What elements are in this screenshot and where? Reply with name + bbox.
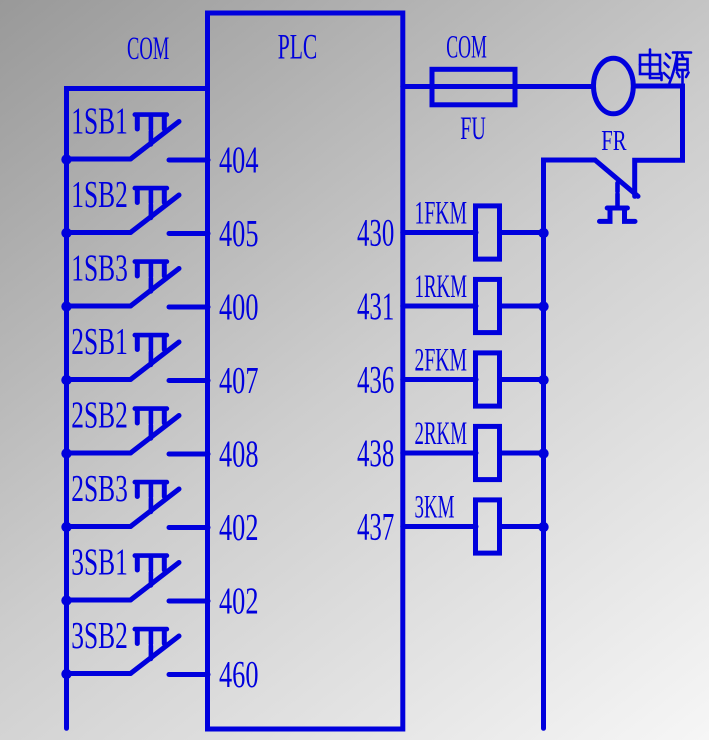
wire left contact row 2 [67, 230, 131, 235]
PLC output pin 438 [357, 432, 394, 475]
wire right contact row 6 [169, 525, 208, 530]
label 1SB1 [71, 101, 128, 143]
wire right contact row 1 [169, 158, 208, 163]
junction dot output row 2 [538, 301, 548, 311]
PLC output pin 430 [357, 212, 394, 255]
svg-text:1SB3: 1SB3 [71, 248, 128, 290]
svg-text:2FKM: 2FKM [415, 343, 468, 379]
svg-text:1SB2: 1SB2 [71, 174, 128, 216]
label 3SB2 [71, 615, 128, 657]
wire coil 3KM to bus [500, 524, 544, 529]
svg-text:402: 402 [219, 580, 259, 622]
PLC input pin 402 [219, 580, 259, 622]
wire PLC to coil 2RKM [403, 451, 476, 456]
svg-text:438: 438 [357, 432, 394, 475]
svg-text:3KM: 3KM [415, 490, 455, 526]
wire PLC to coil 2FKM [403, 377, 476, 382]
svg-text:2SB3: 2SB3 [71, 468, 128, 510]
PLC input pin 402 [219, 507, 259, 549]
pushbutton switch 1SB2 [131, 188, 180, 232]
PLC input pin 408 [219, 433, 259, 475]
wire right contact row 8 [169, 672, 208, 677]
junction dot row 6 [61, 522, 71, 532]
PLC input pin 460 [219, 654, 259, 696]
contactor coil 1RKM [476, 279, 500, 332]
label 1SB2 [71, 174, 128, 216]
contactor coil 3KM [476, 500, 500, 553]
junction dot row 2 [61, 228, 71, 238]
svg-text:2SB2: 2SB2 [71, 395, 128, 437]
right COM label [446, 30, 487, 66]
svg-text:3SB2: 3SB2 [71, 615, 128, 657]
svg-text:FR: FR [601, 126, 627, 157]
junction dot output row 5 [538, 522, 548, 532]
junction dot row 4 [61, 375, 71, 385]
pushbutton switch 1SB1 [131, 115, 180, 159]
svg-text:1SB1: 1SB1 [71, 101, 128, 143]
svg-text:PLC: PLC [278, 26, 318, 66]
label 3KM [415, 490, 455, 526]
svg-text:408: 408 [219, 433, 259, 475]
wire left contact row 7 [67, 598, 131, 603]
wire left contact row 5 [67, 451, 131, 456]
svg-text:437: 437 [357, 506, 394, 549]
wire left contact row 8 [67, 671, 131, 676]
label 1FKM [415, 196, 468, 232]
pushbutton switch 3SB2 [131, 629, 180, 673]
wire left contact row 6 [67, 524, 131, 529]
pushbutton switch 2SB1 [131, 335, 180, 379]
wire coil 2RKM to bus [500, 451, 544, 456]
label 1RKM [415, 269, 468, 305]
wire PLC to coil 3KM [403, 524, 476, 529]
pushbutton switch 2SB3 [131, 482, 180, 526]
contactor coil 1FKM [476, 206, 500, 259]
contactor coil 2RKM [476, 426, 500, 479]
FU label [460, 111, 486, 147]
svg-text:2SB1: 2SB1 [71, 321, 128, 363]
wire PLC to coil 1RKM [403, 304, 476, 309]
svg-text:430: 430 [357, 212, 394, 255]
wire right contact row 2 [169, 231, 208, 236]
thermal relay contact FR [595, 160, 638, 221]
svg-text:402: 402 [219, 507, 259, 549]
wire PLC to coil 1FKM [403, 230, 476, 235]
PLC output pin 437 [357, 506, 394, 549]
svg-text:1RKM: 1RKM [415, 269, 468, 305]
junction dot row 7 [61, 595, 71, 605]
pushbutton switch 2SB2 [131, 409, 180, 453]
output bus wire with FR left wire [544, 160, 596, 728]
svg-text:400: 400 [219, 286, 259, 328]
svg-text:431: 431 [357, 285, 394, 328]
svg-text:1FKM: 1FKM [415, 196, 468, 232]
junction dot row 8 [61, 669, 71, 679]
PLC label [278, 26, 318, 66]
fuse FU [432, 69, 515, 105]
label 2FKM [415, 343, 468, 379]
PLC output pin 436 [357, 359, 394, 402]
PLC input pin 400 [219, 286, 259, 328]
wire left contact row 4 [67, 377, 131, 382]
junction dot row 5 [61, 448, 71, 458]
wire power source to FR right terminal [635, 86, 683, 196]
wire coil 1FKM to bus [500, 230, 544, 235]
PLC input pin 407 [219, 360, 259, 402]
contactor coil 2FKM [476, 353, 500, 406]
svg-text:404: 404 [219, 139, 259, 181]
wire coil 1RKM to bus [500, 304, 544, 309]
wire right contact row 7 [169, 599, 208, 604]
left COM rail and bus wire [67, 89, 208, 729]
label 2SB2 [71, 395, 128, 437]
PLC input pin 404 [219, 139, 259, 181]
left COM label [127, 31, 169, 67]
wire right contact row 3 [169, 305, 208, 310]
PLC output pin 431 [357, 285, 394, 328]
wire right contact row 5 [169, 452, 208, 457]
svg-text:405: 405 [219, 213, 259, 255]
FR label [601, 126, 627, 157]
junction dot output row 3 [538, 375, 548, 385]
svg-text:3SB1: 3SB1 [71, 542, 128, 584]
junction dot row 1 [61, 154, 71, 164]
wire left contact row 1 [67, 157, 131, 162]
label 2SB1 [71, 321, 128, 363]
junction dot output row 1 [538, 228, 548, 238]
svg-text:FU: FU [460, 111, 486, 147]
junction dot output row 4 [538, 448, 548, 458]
wire right contact row 4 [169, 378, 208, 383]
PLC box U1 [208, 13, 403, 729]
label 2SB3 [71, 468, 128, 510]
label 1SB3 [71, 248, 128, 290]
svg-text:436: 436 [357, 359, 394, 402]
svg-text:COM: COM [127, 31, 169, 67]
junction dot row 3 [61, 301, 71, 311]
svg-text:COM: COM [446, 30, 487, 66]
svg-text:2RKM: 2RKM [415, 416, 468, 452]
svg-text:460: 460 [219, 654, 259, 696]
power source circle [594, 58, 634, 114]
label 2RKM [415, 416, 468, 452]
pushbutton switch 1SB3 [131, 262, 180, 306]
label 3SB1 [71, 542, 128, 584]
pushbutton switch 3SB1 [131, 556, 180, 600]
wire coil 2FKM to bus [500, 377, 544, 382]
wire PLC to power source through fuse [403, 84, 592, 89]
svg-text:407: 407 [219, 360, 259, 402]
电源 label [640, 50, 691, 84]
PLC input pin 405 [219, 213, 259, 255]
wire left contact row 3 [67, 304, 131, 309]
